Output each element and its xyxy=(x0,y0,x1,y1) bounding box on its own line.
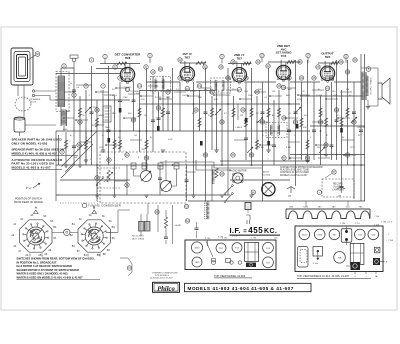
svg-text:2 ON.: 2 ON. xyxy=(340,223,346,225)
antenna terminal xyxy=(72,58,76,62)
wire can to bus xyxy=(25,124,56,126)
capacitor C15 xyxy=(312,129,316,131)
wire below tuning box xyxy=(148,203,158,232)
resistor R2 xyxy=(95,118,98,127)
svg-text:2A: 2A xyxy=(20,218,23,221)
resistor R19 xyxy=(306,140,309,149)
resistor R20 xyxy=(319,108,322,117)
svg-text:SW: SW xyxy=(74,157,77,159)
trimmer C2D xyxy=(158,163,163,169)
svg-text:10 MF: 10 MF xyxy=(316,95,323,97)
resistor R3 xyxy=(113,140,116,149)
svg-text:3 5 A: 3 5 A xyxy=(313,262,318,265)
svg-text:117V: 117V xyxy=(350,147,355,149)
left lower wiring xyxy=(66,131,86,165)
41-604 speaker cutout xyxy=(298,247,309,268)
41-604 socket 7C6 xyxy=(355,229,366,240)
capacitor C11 xyxy=(261,111,265,113)
trimmer C2A xyxy=(131,163,136,169)
svg-text:5A: 5A xyxy=(109,220,112,223)
resistor R18 xyxy=(300,118,303,127)
more ref callouts xyxy=(103,54,107,58)
svg-text:MODELS 41-604, 41-605 & 41-607: MODELS 41-604, 41-605 & 41-607 xyxy=(12,151,58,155)
41-603 tube socket 7C6 xyxy=(232,243,242,253)
trimmer C2C xyxy=(142,163,147,169)
resistor R26 xyxy=(64,140,67,149)
capacitor C22 xyxy=(335,119,339,121)
tuning condenser dashed enclosure xyxy=(100,152,186,203)
svg-text:33K: 33K xyxy=(198,97,202,99)
41-603 tube socket 7B7 right xyxy=(263,257,274,268)
41-603 tube socket 7C6 right xyxy=(263,242,274,253)
svg-text:MODELS 41-603 & 41-607: MODELS 41-603 & 41-607 xyxy=(12,165,51,169)
grid resistor R32 xyxy=(331,61,339,64)
41-604 socket 7B7 xyxy=(329,229,340,240)
41-604 leads below xyxy=(355,272,376,275)
41-604 socket 7B5 xyxy=(368,229,379,240)
component number callouts xyxy=(62,64,66,68)
choke L4 xyxy=(212,170,214,184)
svg-text:2 2 0: 2 2 0 xyxy=(355,223,361,225)
switch levers xyxy=(85,107,357,153)
oscillator coil L2 xyxy=(60,110,62,126)
shaft coupling M xyxy=(64,229,70,235)
range switch wafer B (rear view) xyxy=(78,220,110,252)
svg-text:1W: 1W xyxy=(272,91,275,93)
power switch S3 xyxy=(226,186,233,193)
svg-text:250K: 250K xyxy=(248,95,254,97)
electrolytic can C90 xyxy=(14,118,25,132)
svg-text:(M): (M) xyxy=(338,196,341,198)
svg-text:2 ON. 2 2 0: 2 ON. 2 2 0 xyxy=(381,222,393,224)
resistor R17 xyxy=(277,108,280,117)
svg-text:XXM: XXM xyxy=(303,206,308,208)
svg-text:CONNECTIONS SHOWN FOR RECORD: CONNECTIONS SHOWN FOR RECORD xyxy=(280,167,323,169)
svg-text:PHONO MOTOR: PHONO MOTOR xyxy=(229,171,247,173)
dial assembly diagonals xyxy=(61,132,97,179)
svg-text:BULB: BULB xyxy=(263,172,269,174)
svg-text:8A: 8A xyxy=(53,237,56,240)
ref callout B xyxy=(366,67,371,72)
svg-text:CONTROL 41-607 IS USED: CONTROL 41-607 IS USED xyxy=(280,172,309,174)
candohm resistor block R41 xyxy=(145,222,151,232)
41-604 socket XXM xyxy=(314,229,325,240)
svg-text:7B7: 7B7 xyxy=(185,55,191,59)
svg-text:PAD: PAD xyxy=(112,112,117,115)
svg-text:Philco: Philco xyxy=(157,285,175,292)
candohm resistor block R40 xyxy=(139,222,145,232)
svg-text:← 7 1A: ← 7 1A xyxy=(386,239,394,242)
capacitor C8 xyxy=(204,111,208,113)
svg-text:2A: 2A xyxy=(79,218,82,221)
capacitor C18 xyxy=(359,129,363,131)
T2 secondary coil xyxy=(223,81,225,91)
wire candohm leads xyxy=(141,205,173,244)
capacitor C14 xyxy=(294,111,298,113)
41-603 dial lamp xyxy=(212,261,216,265)
ref callout 33 xyxy=(77,143,81,147)
svg-text:ONLY ON MODEL 41-603: ONLY ON MODEL 41-603 xyxy=(12,141,48,145)
ref callout 62 xyxy=(155,210,159,214)
trimmer C2B xyxy=(174,163,179,169)
antenna coil L1 xyxy=(57,76,59,107)
capacitor C4 xyxy=(132,99,136,101)
wires inside tuning condenser xyxy=(134,160,177,186)
svg-text:TOP VIEW MODELS 41-614, 41-60: TOP VIEW MODELS 41-614, 41-605, 41-607 xyxy=(297,274,350,278)
svg-text:8 MF: 8 MF xyxy=(286,147,292,149)
resistor R42 xyxy=(164,217,167,228)
tube shield strip (scalloped) xyxy=(286,211,370,219)
ref callout 69 xyxy=(220,172,224,176)
41-604 small square right xyxy=(374,247,380,253)
41-603 tube socket 7B5 xyxy=(192,257,202,267)
resistor R1 xyxy=(78,108,81,117)
phono motor M1 xyxy=(233,173,243,183)
wire top cap leads xyxy=(125,60,330,68)
41-604 dark component right xyxy=(373,258,380,265)
svg-text:6A: 6A xyxy=(102,215,105,218)
svg-text:TO OSC: TO OSC xyxy=(124,87,132,89)
wire junctions xyxy=(91,130,93,132)
svg-text:=: = xyxy=(243,229,247,235)
lever tip arrows xyxy=(89,107,91,109)
svg-text:BA: BA xyxy=(112,226,116,229)
tube V5 7B5 output xyxy=(320,66,334,80)
svg-text:IN POSITION No.1, BROADCAST.: IN POSITION No.1, BROADCAST. xyxy=(17,260,58,264)
svg-text:8A: 8A xyxy=(112,237,115,240)
svg-text:41-603,41-605 & 41-607: 41-603,41-605 & 41-607 xyxy=(150,278,173,280)
svg-text:51K: 51K xyxy=(93,107,97,109)
capacitor C3 xyxy=(107,129,111,131)
svg-text:2 ON.: 2 ON. xyxy=(251,238,257,240)
ref callout 67 xyxy=(332,170,336,174)
41-604 socket 35Z3 xyxy=(299,229,310,240)
svg-text:PAD: PAD xyxy=(105,126,110,129)
capacitor C40 xyxy=(164,236,168,238)
resistor R10 xyxy=(198,118,201,127)
resistor R23 xyxy=(346,108,349,117)
41-603 output transformer xyxy=(245,242,259,261)
svg-text:3-30: 3-30 xyxy=(168,139,173,141)
svg-text:RECORD: RECORD xyxy=(333,184,343,186)
svg-text:35Z3: 35Z3 xyxy=(195,248,201,250)
svg-text:SWITCHES SHOWN FROM REAR, BOTT: SWITCHES SHOWN FROM REAR, BOTTOM VIEW OF… xyxy=(17,257,95,261)
41-604 bottom connector xyxy=(351,262,361,270)
capacitor C5 xyxy=(151,119,155,121)
resistor R24 xyxy=(84,140,87,149)
phono jack P1 xyxy=(287,187,295,194)
output transformer T4 xyxy=(361,72,363,100)
svg-text:2 2 B: 2 2 B xyxy=(232,236,237,238)
wire speaker leads xyxy=(361,68,378,106)
svg-text:PLUG: PLUG xyxy=(30,102,36,104)
svg-text:SHADED ROTOR X AT FRONT OF S: SHADED ROTOR X AT FRONT OF SWITCH WAFER xyxy=(17,268,79,272)
svg-text:7B5: 7B5 xyxy=(325,55,331,59)
dial drive dashed lines xyxy=(96,168,120,188)
caption leader bracket xyxy=(120,258,132,276)
svg-text:I.F.: I.F. xyxy=(230,226,241,235)
svg-text:MODELS 41-605 & 41-607: MODELS 41-605 & 41-607 xyxy=(280,175,308,177)
svg-text:7B7: 7B7 xyxy=(237,56,243,60)
svg-text:PLAYER LEVEL AND TONE: PLAYER LEVEL AND TONE xyxy=(280,169,309,172)
svg-text:SEC: SEC xyxy=(226,95,231,97)
svg-text:(BOT VIEW): (BOT VIEW) xyxy=(132,238,144,240)
pilot lamp I1 xyxy=(262,183,275,196)
41-603 small trimmers xyxy=(212,259,216,262)
chassis top view 41-604/5/7 outline xyxy=(295,226,383,272)
capacitor C20 xyxy=(118,99,122,101)
rosette lead stubs xyxy=(30,254,100,257)
top bus stubs xyxy=(105,58,346,64)
41-603 terminal blobs xyxy=(246,263,256,268)
svg-text:P U: P U xyxy=(26,186,31,190)
svg-text:35Z3: 35Z3 xyxy=(302,234,308,236)
svg-text:5A: 5A xyxy=(50,220,53,223)
speaker LS1 (cone and frame) xyxy=(11,48,33,85)
ground at speaker xyxy=(366,106,370,108)
T3 primary coil xyxy=(270,125,272,135)
svg-text:455: 455 xyxy=(248,226,263,235)
wire antenna feed xyxy=(56,68,74,201)
svg-text:AVC: AVC xyxy=(286,94,291,97)
ref callout 71 xyxy=(125,183,129,187)
svg-text:6A: 6A xyxy=(43,215,46,218)
IF transformer T2 (2nd IF) dashed box xyxy=(211,78,231,93)
IF transformer T3 (3rd IF) dashed box xyxy=(266,123,287,138)
ref callout 58 (speaker) xyxy=(35,52,40,57)
T2 primary coil xyxy=(214,81,216,91)
wire vertical drops to return bus xyxy=(97,165,228,201)
capacitor C12 xyxy=(272,144,276,146)
capacitor C21 xyxy=(244,137,248,139)
speaker plug pins xyxy=(32,90,34,92)
line cord plug xyxy=(246,215,250,224)
41-603 trimmer leader xyxy=(206,241,213,257)
svg-text:7B45: 7B45 xyxy=(195,262,201,264)
svg-text:1 MEG: 1 MEG xyxy=(235,127,242,129)
svg-text:4A: 4A xyxy=(30,214,33,217)
41-604 coil square with arrow xyxy=(313,247,323,257)
svg-text:← 7 1A: ← 7 1A xyxy=(372,215,380,218)
dial cord dashed xyxy=(97,167,99,205)
grid resistor R27 xyxy=(117,62,127,65)
svg-text:.04 MF: .04 MF xyxy=(174,225,181,227)
svg-text:ON-OFF: ON-OFF xyxy=(357,127,366,129)
T3 secondary coil xyxy=(279,125,281,135)
resistor R16 xyxy=(267,108,270,117)
ground symbols along return bus xyxy=(78,164,82,166)
capacitor C1 xyxy=(72,89,76,91)
svg-text:MODELS 41-603 41-604 41-6: MODELS 41-603 41-604 41-605 & 41-607 xyxy=(188,286,294,291)
capacitor C6 xyxy=(166,111,170,113)
tuning gang section C1B xyxy=(161,181,172,192)
capacitor C17 xyxy=(352,111,356,113)
tube V4 7C6 2nd det - 1st audio xyxy=(276,65,290,79)
41-603 tube socket 7B7 xyxy=(216,243,226,253)
tuning gang section C1A xyxy=(141,171,152,182)
staircase wires centre xyxy=(160,104,262,170)
41-604 speaker circle 75A xyxy=(334,251,346,263)
svg-text:OUTPUT TRANS: OUTPUT TRANS xyxy=(370,77,373,94)
svg-text:70K: 70K xyxy=(141,149,145,151)
tube V3 7B7 2nd IF xyxy=(232,68,246,82)
ref callouts below tubes xyxy=(125,87,129,91)
resistor R13 xyxy=(232,108,235,117)
on-off switch S2 xyxy=(97,178,103,184)
Philco logo box xyxy=(153,282,180,292)
grid resistor R31 xyxy=(287,60,295,63)
svg-text:CHANGER: CHANGER xyxy=(332,189,344,192)
tube V1 7B8 det-converter xyxy=(120,67,134,81)
svg-text:VOL: VOL xyxy=(99,147,104,149)
svg-text:7B8: 7B8 xyxy=(125,56,131,60)
41-603 tube socket 35Z3 xyxy=(191,242,202,253)
svg-text:470K: 470K xyxy=(297,99,303,101)
svg-text:7C6: 7C6 xyxy=(281,54,287,58)
svg-text:OSC: OSC xyxy=(63,129,68,131)
svg-text:34-2064: 34-2064 xyxy=(262,175,271,177)
svg-text:KC.: KC. xyxy=(264,228,277,235)
svg-text:455KC: 455KC xyxy=(190,91,197,93)
svg-text:AVC: AVC xyxy=(288,88,293,91)
oscillator coil L3 with slug xyxy=(206,202,208,219)
svg-text:2 ON.: 2 ON. xyxy=(205,238,211,240)
paper capacitor blocks xyxy=(108,138,111,143)
svg-text:2W: 2W xyxy=(240,115,243,117)
field coil dashed outline xyxy=(15,97,31,111)
41-604 IF can with trimmers xyxy=(341,229,352,243)
svg-text:OSC: OSC xyxy=(66,111,71,113)
grid resistor R29 xyxy=(243,62,251,65)
svg-text:PM: PM xyxy=(346,89,349,91)
capacitor C24 xyxy=(158,177,162,179)
ground left xyxy=(64,164,68,166)
resistor R6 xyxy=(145,140,148,149)
phono jack P2 xyxy=(337,187,345,194)
resistor R25 xyxy=(250,108,253,117)
svg-text:XXM: XXM xyxy=(317,234,322,236)
record changer dashed box xyxy=(322,179,354,197)
svg-text:TOP VIEW MODEL 41-603: TOP VIEW MODEL 41-603 xyxy=(214,274,246,278)
svg-text:FLD: FLD xyxy=(304,115,308,117)
svg-text:BA: BA xyxy=(53,226,57,229)
resistor R11 xyxy=(210,108,213,117)
svg-text:GANG: GANG xyxy=(98,114,104,117)
wire stubs to tube strip xyxy=(306,201,348,206)
loop antenna dashed box xyxy=(56,72,69,112)
svg-text:4A: 4A xyxy=(89,214,92,217)
models title box xyxy=(185,283,312,291)
svg-text:2 2 B: 2 2 B xyxy=(374,225,380,227)
svg-text:SPEAKER: SPEAKER xyxy=(30,98,41,101)
ref callout 68 xyxy=(317,190,321,194)
capacitor C19 xyxy=(157,117,161,119)
resistor R21 xyxy=(324,118,327,127)
ref callout 3b xyxy=(60,150,64,154)
svg-text:FROM REAR OF WAFER: FROM REAR OF WAFER xyxy=(14,201,43,204)
svg-text:4 ON.: 4 ON. xyxy=(218,237,224,239)
resistor R15 xyxy=(255,140,258,149)
resistor R7 xyxy=(161,108,164,117)
capacitor C23 xyxy=(72,145,76,147)
IF transformer T1 (1st IF) dashed box xyxy=(151,77,171,92)
junction dots on interconnects xyxy=(95,91,97,93)
svg-text:75A: 75A xyxy=(338,256,342,259)
speaker LS1 symbol xyxy=(378,83,382,99)
resistor R4 xyxy=(118,140,121,149)
resistor R5 xyxy=(138,108,141,117)
svg-text:(M): (M) xyxy=(288,196,291,198)
wire short interconnects xyxy=(64,85,356,158)
capacitor C16 xyxy=(330,144,334,146)
grid resistor R28 xyxy=(196,61,206,64)
svg-text:1M: 1M xyxy=(134,135,137,137)
svg-text:4 MF: 4 MF xyxy=(259,147,265,149)
svg-text:WAFER B USED ON MODELS 41-604,: WAFER B USED ON MODELS 41-604, 41-605 & … xyxy=(17,276,84,280)
capacitor C13 xyxy=(287,129,291,131)
wire vertical runs (signal and B+ feeds) xyxy=(74,54,365,201)
chassis top view 41-603 outline xyxy=(185,240,276,270)
41-604 output transformer xyxy=(350,243,364,264)
ref callout 70 xyxy=(95,176,99,180)
capacitor C25 xyxy=(185,179,189,181)
capacitor C2 xyxy=(90,111,94,113)
T1 primary coil xyxy=(154,79,156,89)
resistor R22 xyxy=(340,118,343,127)
resistor R14 xyxy=(244,118,247,127)
svg-text:No 33-3554: No 33-3554 xyxy=(132,236,144,238)
lower band links xyxy=(56,172,196,195)
wire horizontal buses (AVC, B+, filament, ground) xyxy=(56,62,365,201)
svg-text:WAFER B USED ONLY ON MODEL 41-: WAFER B USED ONLY ON MODEL 41-603, xyxy=(17,272,69,276)
svg-text:.1 MF: .1 MF xyxy=(122,97,128,99)
range switch wafer A (rear view) xyxy=(20,220,52,252)
ref callout 63 xyxy=(184,204,188,208)
oscillator trimmer block xyxy=(103,106,111,122)
tube V2 7B7 1st IF xyxy=(180,67,194,81)
T1 secondary coil xyxy=(163,79,165,89)
resistor R33 xyxy=(215,168,218,178)
wire rosette B to circuit xyxy=(106,210,130,232)
ref callout 64 xyxy=(185,219,189,223)
volume control R30 xyxy=(107,170,110,182)
wire speaker voice coil leads xyxy=(18,85,24,118)
svg-text:No.2 ROTOR X AT REAR OF SWIT: No.2 ROTOR X AT REAR OF SWITCH WAFER xyxy=(17,264,73,268)
electrolytic block C50 xyxy=(245,203,251,210)
capacitor C41 xyxy=(195,227,199,229)
svg-text:B-: B- xyxy=(150,137,152,139)
